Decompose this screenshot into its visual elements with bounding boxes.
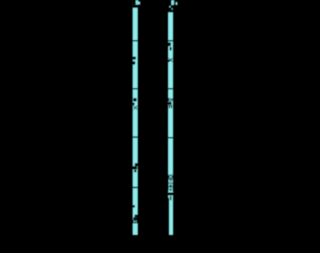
wire BUS1 (left vertical net) xyxy=(133,0,138,235)
pin label R5a (X glyph) xyxy=(168,98,169,101)
net label R-mid (X glyph) xyxy=(168,175,173,179)
wire stub right of right bus top xyxy=(173,0,174,5)
pin label R3 (X glyph + dot) xyxy=(168,58,173,62)
pin label L6b xyxy=(133,166,138,169)
wire BUS2 (right vertical net, upper segment) xyxy=(168,0,173,198)
pin label R2a xyxy=(168,42,171,46)
net label R-mid (n glyph rotated 2) xyxy=(169,188,170,191)
junction tick L3 (left bus break) xyxy=(132,88,138,89)
pin label L4a xyxy=(133,98,136,101)
junction tick L1 (left bus break) xyxy=(132,40,138,41)
wire BUS2 (right vertical net, lower narrower segment) xyxy=(169,198,173,235)
pin label L8 (left edge notch) xyxy=(132,205,135,208)
net label R-mid (E glyph rotated) xyxy=(169,179,170,182)
net label L-bottom (cluster) xyxy=(135,215,138,218)
junction tick R6 (right bus break) xyxy=(168,137,174,138)
pin label L4b (dot) xyxy=(132,103,135,106)
wire stub right of left bus top xyxy=(137,0,140,5)
pin label L6a xyxy=(135,163,138,166)
junction tick L7 (left bus break) xyxy=(132,187,138,188)
pin label L6c xyxy=(134,170,136,172)
node dot right of left bus top xyxy=(139,2,141,5)
pin label R5c xyxy=(169,105,170,108)
net label R-top (black text over right bus top) xyxy=(168,0,171,5)
net label R-mid (label box over bus) xyxy=(168,175,173,191)
pin label L4c (X glyph) xyxy=(133,106,138,110)
junction tick R7 (wide crossing tick) xyxy=(167,192,174,195)
net label L-top (black text over left bus top) xyxy=(133,0,136,5)
pin label L2b (dot at left edge) xyxy=(132,61,136,65)
pin label R2b (slot glyph) xyxy=(170,47,172,50)
pin label R5b xyxy=(169,102,172,105)
pin label L2a xyxy=(133,57,136,60)
net label R-mid (n glyph rotated) xyxy=(169,184,170,187)
junction tick L5 (left bus break) xyxy=(132,136,138,137)
node dot right of right bus top xyxy=(176,2,178,5)
junction tick R4 (right bus break) xyxy=(168,88,174,89)
pin label R8 (slot glyph) xyxy=(170,196,172,200)
junction tick R1 (right bus break) xyxy=(168,40,174,41)
